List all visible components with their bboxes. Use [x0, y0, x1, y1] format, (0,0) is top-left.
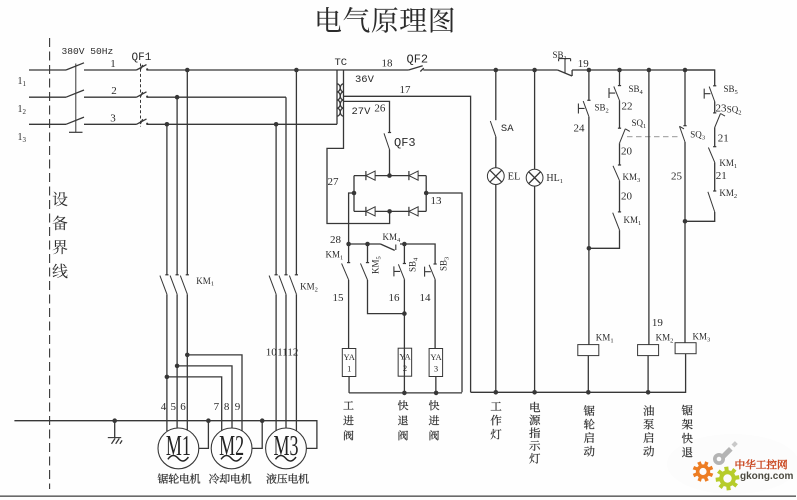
svg-text:13: 13: [431, 195, 443, 207]
label HL1: [546, 173, 563, 185]
wire drops to KM2 contacts: [276, 70, 296, 275]
svg-text:5: 5: [171, 401, 177, 413]
diode D2: [409, 171, 418, 180]
wire 28 DC row: [349, 193, 436, 264]
PE bus wire: [14, 421, 317, 449]
label 锯轮电机: [158, 474, 201, 484]
svg-text:1: 1: [347, 364, 351, 374]
label 21a: [718, 133, 729, 145]
label 18: [382, 58, 394, 70]
node KM1 bus: [586, 390, 591, 395]
wire YA1 bottom: [348, 377, 350, 393]
control bottom bus: [471, 354, 686, 393]
ground symbol: [108, 421, 122, 444]
node 28-b: [365, 242, 370, 247]
svg-text:10: 10: [266, 347, 278, 359]
solenoid valve YA2: [398, 348, 412, 376]
label KM3 coil: [693, 332, 711, 344]
svg-text:6: 6: [180, 401, 186, 413]
label SB4 vertical: [408, 257, 420, 272]
dashed link SQ1-SQ3: [627, 136, 678, 138]
node bridge top: [387, 173, 392, 178]
node rail HL: [532, 68, 537, 73]
title 电气原理图: [318, 7, 454, 33]
solenoid valve YA3: [429, 349, 443, 377]
svg-text:3: 3: [110, 113, 116, 125]
wire 26: [344, 101, 390, 132]
valve bottom bus: [349, 392, 462, 394]
diode D4: [409, 207, 418, 216]
label KM1 coil: [596, 333, 614, 345]
node L2-M1: [175, 95, 180, 100]
svg-text:4: 4: [161, 401, 167, 413]
svg-text:17: 17: [400, 84, 412, 96]
label 23: [716, 103, 728, 115]
svg-text:1: 1: [110, 58, 116, 70]
diode bridge frame: [354, 176, 426, 212]
node 28-a: [346, 242, 351, 247]
label 快进阀: [429, 400, 439, 440]
label 电源指示灯: [529, 402, 540, 464]
svg-text:26: 26: [374, 103, 386, 115]
node rail EL: [494, 68, 499, 73]
switch SA: [490, 70, 496, 137]
label 液压电机: [266, 473, 308, 483]
svg-text:11: 11: [277, 347, 288, 359]
watermark gear orange: [693, 461, 714, 482]
node PE-M1: [206, 418, 211, 423]
label 14: [420, 292, 432, 304]
hold button SB4: [609, 70, 621, 111]
label 28: [330, 234, 342, 246]
label TC: [335, 57, 348, 69]
node L1-M1: [185, 68, 190, 73]
svg-text:21: 21: [716, 170, 727, 182]
wire L1 phase line: [29, 69, 715, 71]
stop button SB1: [558, 59, 573, 76]
label KM1 (valve): [326, 250, 344, 262]
label 4 5 6: [161, 401, 186, 413]
valve branch contact KM1: [342, 244, 351, 349]
node tap 6: [185, 353, 190, 358]
label 工进阀: [343, 401, 353, 440]
svg-text:YA: YA: [344, 352, 356, 362]
label wire 3: [110, 113, 116, 125]
contact KM3 aux: [613, 165, 621, 212]
label 15: [333, 292, 345, 304]
node ground tap: [112, 418, 117, 423]
valve branch contact KM5: [361, 244, 405, 314]
label 1:3: [18, 132, 27, 144]
coil KM1: [578, 345, 599, 393]
node bridge right: [424, 191, 429, 196]
wire taps to motor M2: [167, 355, 242, 431]
label 20a: [621, 146, 633, 158]
breaker QF2: [409, 66, 424, 72]
breaker QF3: [384, 133, 391, 176]
svg-text:QF3: QF3: [394, 136, 416, 150]
svg-text:QF2: QF2: [407, 53, 429, 67]
node EL bus: [494, 390, 499, 395]
motor M2: [211, 428, 252, 469]
wire M1 neutral loop: [199, 421, 209, 449]
label 工作灯: [491, 402, 502, 440]
limit switch SQ3: [680, 70, 687, 343]
wire branch E top: [685, 70, 715, 86]
node L3-M1: [165, 122, 170, 127]
label SB4: [629, 84, 644, 96]
label 13: [431, 195, 443, 207]
svg-text:QF1: QF1: [132, 52, 152, 64]
label 19b: [652, 317, 664, 329]
bottom border line: [0, 495, 796, 497]
label SQ1: [632, 118, 647, 130]
svg-text:SA: SA: [501, 123, 514, 135]
svg-text:23: 23: [716, 103, 728, 115]
svg-text:14: 14: [420, 292, 432, 304]
node D join: [683, 219, 688, 224]
solenoid valve YA1: [342, 349, 356, 377]
label 27V: [352, 106, 372, 118]
wire YA3 bottom: [435, 377, 437, 393]
node L1-M3: [294, 68, 299, 73]
label SB2: [595, 103, 609, 115]
node L3-M3: [274, 122, 279, 127]
wire drops to KM1 contacts: [167, 70, 187, 275]
label KM3 aux: [623, 172, 641, 184]
watermark text gkong.com: [740, 471, 793, 482]
diode D3: [366, 207, 375, 216]
valve branch button SB4: [394, 244, 406, 393]
label SB3 vertical: [439, 257, 451, 271]
svg-text:28: 28: [330, 234, 342, 246]
svg-text:EL: EL: [508, 172, 521, 183]
label SQ2: [727, 105, 742, 117]
svg-text:21: 21: [718, 133, 729, 145]
wire 27: [327, 119, 390, 224]
label EL: [508, 172, 521, 183]
node YA3 bus: [434, 391, 439, 396]
label SQ3: [690, 130, 705, 142]
label 19: [578, 58, 590, 70]
node bridge bottom: [387, 209, 392, 214]
wire 13: [426, 193, 462, 392]
node HL bus: [532, 390, 537, 395]
contact KM2 aux E: [685, 191, 716, 221]
svg-text:8: 8: [224, 401, 230, 413]
label 20b: [621, 191, 633, 203]
coil KM2: [638, 345, 659, 393]
contact KM1 aux E: [708, 147, 716, 191]
label KM2 coil: [656, 333, 674, 345]
label KM2: [300, 282, 318, 294]
svg-text:27: 27: [328, 176, 340, 188]
wire 17: [344, 96, 471, 392]
svg-text:24: 24: [574, 123, 586, 135]
node 28-c: [402, 242, 407, 247]
svg-text:25: 25: [671, 171, 683, 183]
label 1:2: [18, 104, 27, 116]
svg-text:20: 20: [621, 146, 633, 158]
svg-text:36V: 36V: [355, 74, 375, 86]
svg-text:YA: YA: [430, 352, 442, 362]
wire branch C: [648, 70, 650, 345]
node bridge left: [352, 191, 357, 196]
lamp HL1: [526, 70, 543, 392]
contactor KM2 main contacts: [269, 275, 298, 294]
label SB1: [553, 50, 567, 62]
stop button SB5: [704, 86, 716, 113]
label QF1: [132, 52, 152, 64]
diode D1: [366, 171, 375, 180]
label 设备界线: [52, 192, 67, 279]
label wire 2: [111, 85, 117, 97]
node PE-M2: [260, 418, 265, 423]
label wire 1: [110, 58, 116, 70]
lamp EL: [487, 137, 504, 393]
node tap 4: [165, 375, 170, 380]
label KM1 aux: [624, 215, 642, 227]
svg-text:gkong.com: gkong.com: [740, 471, 793, 482]
node rail B: [617, 68, 622, 73]
watermark text 中华工控网: [736, 459, 787, 469]
contact KM4 (row 28): [381, 244, 396, 250]
node KM2 bus: [646, 390, 651, 395]
coil KM3: [675, 343, 696, 354]
svg-text:7: 7: [214, 401, 220, 413]
label 1:1: [18, 76, 27, 88]
limit switch SQ2: [713, 113, 725, 147]
node A join: [587, 246, 592, 251]
disconnect switch QS blades: [66, 63, 84, 133]
svg-text:22: 22: [622, 101, 633, 113]
limit switch SQ1: [618, 111, 630, 166]
node rail D: [683, 68, 688, 73]
svg-text:9: 9: [235, 401, 241, 413]
label 21b: [716, 170, 727, 182]
svg-text:20: 20: [621, 191, 633, 203]
watermark gear green: [716, 467, 740, 491]
label 22: [622, 101, 633, 113]
label SA: [501, 123, 514, 135]
node YA2 bus: [402, 391, 407, 396]
label 26: [374, 103, 386, 115]
node valve join: [402, 311, 407, 316]
node tap 5: [175, 364, 180, 369]
label 16: [389, 292, 401, 304]
svg-text:YA: YA: [399, 352, 411, 362]
wire L2 phase line: [29, 96, 286, 98]
contactor KM1 main contacts: [160, 275, 189, 294]
svg-text:16: 16: [389, 292, 401, 304]
svg-text:2: 2: [111, 85, 117, 97]
label 17: [400, 84, 412, 96]
label QF2: [407, 53, 429, 67]
label KM1: [196, 276, 214, 288]
svg-text:15: 15: [333, 292, 345, 304]
wire L3 phase line: [29, 123, 337, 125]
contact KM1 aux: [589, 212, 621, 248]
label 36V: [355, 74, 375, 86]
valve branch button SB3: [425, 264, 437, 349]
start button SB2: [578, 70, 590, 345]
label SB5: [724, 84, 738, 96]
svg-text:TC: TC: [335, 57, 348, 69]
motor M1: [158, 428, 199, 469]
node rail A: [587, 68, 592, 73]
label KM5 vertical: [371, 256, 383, 274]
wire M2 neutral loop: [252, 421, 262, 449]
label 24: [574, 123, 586, 135]
circuit breaker QF1: [137, 64, 149, 127]
equipment boundary dashed line 设备界线: [49, 38, 51, 489]
svg-text:27V: 27V: [352, 106, 372, 118]
watermark wrench: [713, 441, 738, 465]
wire KM1 to motor M1: [167, 294, 187, 431]
node rail C: [647, 68, 652, 73]
label 油泵启动: [643, 405, 654, 456]
svg-text:2: 2: [403, 363, 407, 373]
label 27: [328, 176, 340, 188]
label 冷却电机: [209, 474, 251, 484]
svg-text:3: 3: [434, 364, 438, 374]
label 快退阀: [398, 400, 408, 440]
watermark glow: [667, 434, 797, 494]
label QF3: [394, 136, 416, 150]
svg-text:380V 50Hz: 380V 50Hz: [62, 46, 114, 57]
label 10 11 12: [266, 347, 299, 359]
label KM1 aux E: [719, 158, 737, 170]
label 25: [671, 171, 683, 183]
svg-text:19: 19: [652, 317, 664, 329]
label KM2 aux E: [719, 188, 737, 200]
label KM4: [383, 232, 402, 244]
label 380V 50Hz: [62, 46, 114, 57]
motor M3: [266, 428, 307, 469]
label 锯架快退: [682, 405, 693, 457]
label 7 8 9: [214, 401, 241, 413]
svg-text:18: 18: [382, 58, 394, 70]
transformer TC: [337, 70, 344, 124]
wire KM2 to motor M3: [276, 294, 296, 431]
svg-text:12: 12: [287, 347, 298, 359]
label 锯轮启动: [584, 405, 595, 456]
